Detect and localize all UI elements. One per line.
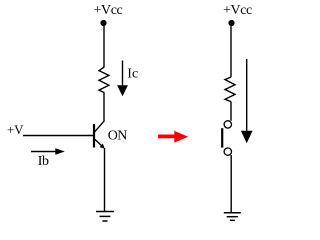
ground (left) xyxy=(96,212,114,222)
switch S1 lever (closed) xyxy=(221,128,223,147)
Q1 collector lead xyxy=(95,121,105,132)
resistor (right) xyxy=(225,77,235,102)
wire: resistor bottom to transistor collector xyxy=(103,93,105,121)
node: +Vcc terminal dot (right) xyxy=(228,20,234,26)
wire: emitter to ground (left) xyxy=(104,148,106,212)
red transform arrow xyxy=(158,131,188,143)
wire: base input xyxy=(23,135,93,137)
node: +Vcc terminal dot (left) xyxy=(100,20,106,26)
wire: left +Vcc dot to resistor top xyxy=(103,24,105,67)
current arrow Ic (shaft) xyxy=(122,61,124,88)
ground (right) xyxy=(224,213,241,221)
Q1 emitter lead xyxy=(95,139,104,148)
switch S1 top contact xyxy=(224,121,231,128)
Q1 base bar xyxy=(93,124,95,148)
Q1 emitter arrowhead xyxy=(100,144,105,149)
current arrow (right, shaft) xyxy=(246,59,248,133)
current arrow Ib (shaft) xyxy=(31,151,57,153)
resistor Rc (collector resistor, left) xyxy=(99,67,109,93)
wire: resistor bottom to switch top contact xyxy=(230,102,232,121)
current arrow Ib (head) xyxy=(55,148,65,154)
svg-text:Ic: Ic xyxy=(127,66,138,81)
svg-text:+Vcc: +Vcc xyxy=(94,3,123,18)
svg-text:+V: +V xyxy=(7,122,24,137)
svg-text:+Vcc: +Vcc xyxy=(223,3,252,18)
current arrow (right, head) xyxy=(241,131,253,143)
svg-text:Ib: Ib xyxy=(38,154,49,169)
wire: switch bottom contact to ground (right) xyxy=(230,155,232,213)
current arrow Ic (head) xyxy=(117,85,128,96)
transistor Q1 (NPN) xyxy=(94,121,105,149)
switch S1 bottom contact xyxy=(224,148,231,155)
wire: right +Vcc dot to resistor top xyxy=(230,24,232,77)
svg-text:ON: ON xyxy=(108,129,128,144)
